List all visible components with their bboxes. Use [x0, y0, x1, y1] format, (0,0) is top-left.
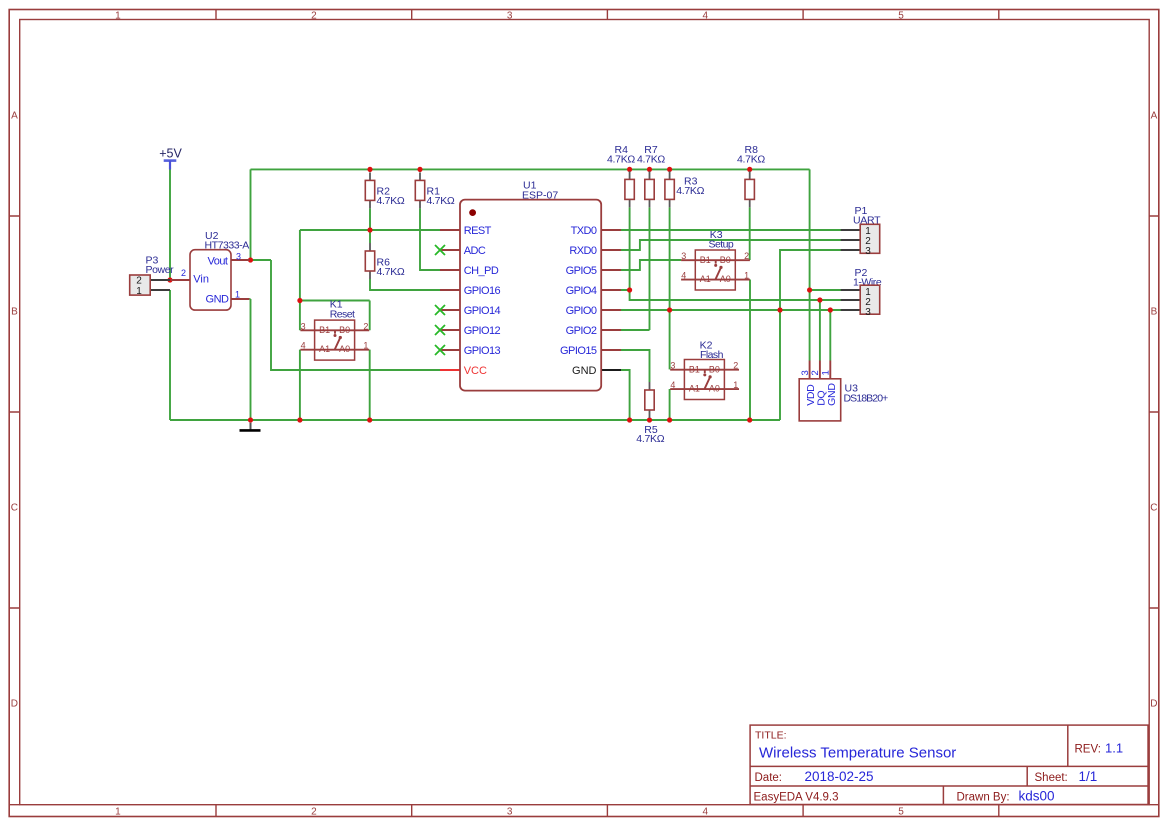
resistor R8	[737, 144, 765, 207]
IC U1 ESP-07	[440, 200, 621, 391]
junction dots	[167, 167, 833, 423]
svg-text:4: 4	[703, 807, 709, 818]
svg-text:B: B	[1151, 307, 1158, 318]
wire K1 A0 to ground rail	[369, 350, 371, 420]
no-connect flag on GPIO14	[435, 305, 445, 315]
wire GPIO0 branch down to K2 B1	[669, 310, 671, 369]
svg-text:B1: B1	[319, 325, 330, 335]
svg-text:VCC: VCC	[464, 365, 487, 377]
svg-text:A1: A1	[319, 344, 330, 354]
svg-text:kds00: kds00	[1019, 789, 1055, 804]
frame row ticks right	[1149, 216, 1159, 805]
ground flag	[240, 423, 261, 431]
wire R3 top to rail	[669, 169, 671, 171]
svg-text:REST: REST	[464, 225, 492, 237]
svg-text:4: 4	[301, 341, 306, 351]
resistor R7	[637, 144, 665, 207]
svg-text:3: 3	[507, 807, 513, 818]
svg-text:B1: B1	[689, 365, 700, 375]
svg-text:A: A	[11, 111, 18, 122]
svg-text:1/1: 1/1	[1079, 769, 1098, 784]
svg-text:4.7KΩ: 4.7KΩ	[637, 154, 665, 166]
svg-text:Vout: Vout	[207, 255, 227, 267]
wire GPIO4 to DQ net / P2 pin2	[619, 290, 841, 300]
svg-text:5: 5	[898, 10, 904, 21]
sensor U3	[799, 361, 841, 421]
resistor R5	[636, 382, 664, 445]
wire TXD0 to P1 pin1	[619, 229, 841, 231]
wire +5V net: flag stub down to P3 pin2 / U2 Vin junction	[169, 166, 171, 280]
frame column numbers top	[115, 10, 904, 21]
regulator U2	[171, 250, 250, 310]
wire R3 bottom to GPIO0 wire	[669, 207, 671, 310]
svg-text:GPIO14: GPIO14	[464, 305, 501, 317]
resistor R4	[607, 144, 635, 207]
svg-text:1: 1	[235, 290, 240, 300]
wire R8 bottom to K3 B0	[749, 207, 751, 260]
wire R7 top to rail	[649, 169, 651, 171]
svg-text:1: 1	[744, 271, 749, 281]
svg-text:4: 4	[681, 271, 686, 281]
svg-text:GND: GND	[826, 383, 838, 406]
no-connect flag on ADC	[435, 245, 445, 255]
frame column ticks top	[216, 10, 999, 20]
wire R6 bottom to GPIO16	[370, 279, 440, 290]
svg-text:1: 1	[363, 341, 368, 351]
frame row letters right	[1150, 111, 1157, 710]
svg-text:4.7KΩ: 4.7KΩ	[377, 195, 405, 207]
svg-text:2: 2	[744, 251, 749, 261]
switch K2 Flash	[670, 340, 739, 400]
wire +3.3V rail down to U3 VDD / P2 pin1	[810, 169, 841, 290]
svg-text:Wireless Temperature Sensor: Wireless Temperature Sensor	[759, 745, 956, 762]
svg-text:GPIO13: GPIO13	[464, 345, 501, 357]
svg-text:A0: A0	[709, 384, 720, 394]
switch K1 Reset	[300, 299, 369, 361]
svg-text:3: 3	[507, 10, 513, 21]
resistor R1	[415, 172, 455, 208]
wire RXD0 to P1 pin2	[619, 240, 841, 250]
svg-text:B0: B0	[720, 255, 731, 265]
svg-text:A1: A1	[689, 384, 700, 394]
svg-text:GPIO16: GPIO16	[464, 285, 501, 297]
wire REST net from U1 to K1	[300, 230, 440, 330]
svg-text:2: 2	[311, 10, 317, 21]
svg-text:4: 4	[670, 380, 675, 390]
wire K2 A1 to ground rail	[669, 389, 671, 420]
frame row ticks left	[9, 216, 20, 805]
svg-text:GPIO5: GPIO5	[566, 265, 597, 277]
title block	[750, 725, 1148, 804]
resistor R6	[365, 243, 405, 279]
svg-text:Setup: Setup	[709, 239, 734, 251]
svg-text:2: 2	[181, 268, 186, 278]
svg-text:3: 3	[865, 246, 871, 257]
svg-text:GPIO15: GPIO15	[560, 345, 597, 357]
wire R7 bottom to GPIO2 wire	[649, 207, 651, 330]
connector P2	[841, 285, 880, 318]
wire VCC feed from Vout to U1 VCC	[271, 260, 440, 370]
svg-text:2: 2	[311, 807, 317, 818]
wire U1 GND pin to ground rail	[621, 370, 630, 420]
wire GPIO5 to K3 B1	[619, 260, 681, 270]
svg-text:4.7KΩ: 4.7KΩ	[636, 433, 664, 445]
svg-text:1: 1	[821, 370, 832, 375]
svg-text:4.7KΩ: 4.7KΩ	[676, 185, 704, 197]
svg-text:RXD0: RXD0	[569, 245, 597, 257]
svg-text:GND: GND	[572, 365, 597, 377]
svg-text:1: 1	[136, 286, 142, 297]
svg-text:TITLE:: TITLE:	[755, 730, 787, 742]
wire +3.3V top rail	[251, 168, 810, 170]
wire ground rail (bottom GND bus)	[170, 419, 780, 421]
svg-text:4.7KΩ: 4.7KΩ	[427, 195, 455, 207]
frame row letters left	[11, 111, 18, 710]
svg-text:GND: GND	[206, 294, 230, 306]
wire R2 bottom to REST wire	[369, 208, 371, 230]
svg-text:+5V: +5V	[159, 147, 182, 161]
svg-text:B1: B1	[700, 255, 711, 265]
svg-text:3: 3	[681, 251, 686, 261]
wire R2 top to rail	[369, 169, 371, 172]
svg-text:Vin: Vin	[193, 274, 209, 286]
svg-text:A0: A0	[339, 344, 350, 354]
resistor R3	[665, 171, 705, 207]
svg-text:1: 1	[115, 10, 121, 21]
svg-text:Date:: Date:	[755, 772, 783, 784]
svg-text:4.7KΩ: 4.7KΩ	[737, 154, 765, 166]
svg-text:4: 4	[703, 10, 709, 21]
svg-text:EasyEDA V4.9.3: EasyEDA V4.9.3	[754, 792, 839, 804]
svg-text:ADC: ADC	[464, 245, 486, 257]
svg-text:TXD0: TXD0	[571, 225, 597, 237]
svg-text:3: 3	[865, 307, 871, 318]
svg-text:GPIO12: GPIO12	[464, 325, 501, 337]
svg-text:A: A	[1151, 111, 1158, 122]
wire R1 bottom to CH_PD	[420, 208, 440, 270]
svg-text:1.1: 1.1	[1105, 741, 1123, 756]
no-connect flag on GPIO12	[435, 325, 445, 335]
connector P1	[841, 224, 880, 256]
svg-text:3: 3	[301, 321, 306, 331]
svg-text:4.7KΩ: 4.7KΩ	[607, 154, 635, 166]
wire U3 GND riser	[829, 310, 831, 361]
svg-text:C: C	[11, 503, 18, 514]
switch K3 Setup	[681, 229, 750, 290]
svg-text:B0: B0	[339, 325, 350, 335]
svg-text:GPIO0: GPIO0	[566, 305, 597, 317]
wire U3 DQ riser	[819, 300, 821, 361]
svg-text:D: D	[1150, 699, 1157, 710]
svg-text:2: 2	[733, 361, 738, 371]
wire R1 top to rail	[419, 169, 421, 172]
svg-text:A1: A1	[700, 274, 711, 284]
svg-text:Reset: Reset	[330, 308, 355, 320]
svg-text:A0: A0	[720, 274, 731, 284]
svg-text:1: 1	[733, 380, 738, 390]
svg-text:GPIO2: GPIO2	[566, 325, 597, 337]
svg-text:3: 3	[236, 251, 241, 261]
frame column ticks bottom	[216, 805, 999, 817]
wire R4 bottom to GPIO4 wire	[629, 207, 631, 290]
svg-text:4.7KΩ: 4.7KΩ	[377, 266, 405, 278]
svg-text:1: 1	[115, 807, 121, 818]
wire R6 top to REST wire	[369, 230, 371, 243]
frame column numbers bottom	[115, 807, 904, 818]
svg-text:Drawn By:: Drawn By:	[957, 792, 1010, 804]
wire R4 top to rail	[629, 169, 631, 171]
svg-text:2: 2	[810, 370, 821, 375]
wire GPIO2 from U1	[619, 329, 649, 331]
svg-text:2018-02-25: 2018-02-25	[805, 769, 874, 784]
wire K3 A0 to ground rail	[749, 280, 751, 421]
svg-text:B0: B0	[709, 365, 720, 375]
wire GND riser to P1 pin3	[780, 250, 841, 420]
wire GPIO0 / GND row to P2 pin3	[619, 309, 841, 311]
svg-text:2: 2	[363, 321, 368, 331]
svg-text:5: 5	[898, 807, 904, 818]
wire R8 top to rail	[749, 169, 751, 171]
wire P3 pin1 to ground rail	[169, 290, 171, 420]
svg-text:REV:: REV:	[1075, 744, 1101, 756]
wire U3 VDD riser	[809, 290, 811, 361]
svg-text:C: C	[1150, 503, 1157, 514]
svg-text:Sheet:: Sheet:	[1035, 772, 1068, 784]
svg-text:DS18B20+: DS18B20+	[844, 392, 889, 404]
wire U2 GND to ground rail	[249, 299, 250, 420]
svg-text:D: D	[11, 699, 18, 710]
svg-text:GPIO4: GPIO4	[566, 285, 597, 297]
wire U2 Vout to +3.3V rail riser	[249, 169, 271, 260]
wire K1 A1 to ground rail	[299, 350, 301, 420]
no-connect flag on GPIO13	[435, 345, 445, 355]
resistor R2	[365, 172, 405, 208]
wire GPIO15 to R5 top	[619, 350, 649, 382]
+5V power flag	[159, 147, 182, 170]
connector P3	[130, 275, 170, 297]
svg-text:3: 3	[670, 361, 675, 371]
svg-text:B: B	[11, 307, 18, 318]
svg-text:CH_PD: CH_PD	[464, 265, 499, 277]
